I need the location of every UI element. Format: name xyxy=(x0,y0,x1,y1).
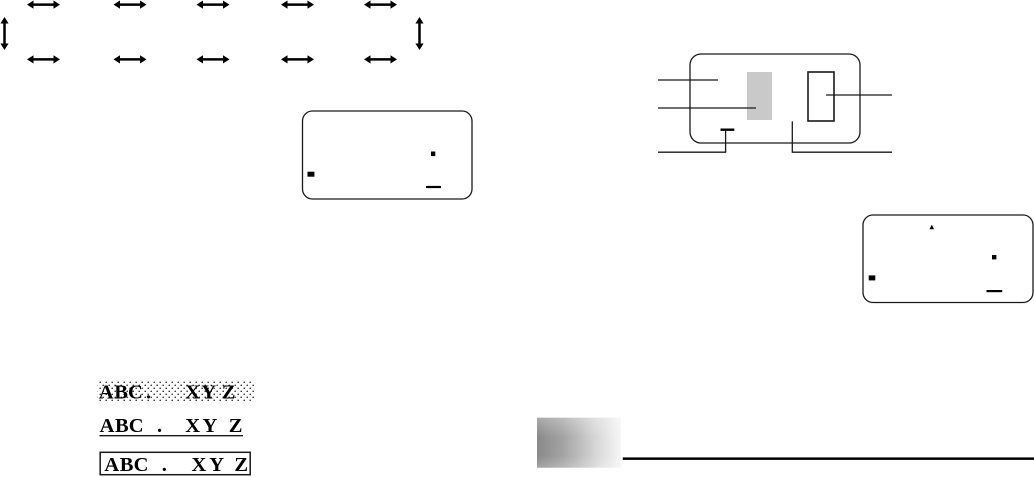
vertical arrow right xyxy=(415,17,423,50)
arrow row2 col2 xyxy=(114,55,147,63)
arrow row2 col3 xyxy=(197,55,230,63)
LCD display 2 outline xyxy=(863,215,1033,303)
arrow row1 col3 xyxy=(197,1,230,9)
svg-text:ABC.: ABC. xyxy=(104,454,167,476)
arrow row1 col1 xyxy=(27,1,60,9)
tape cartridge gray ribbon xyxy=(747,72,772,120)
LCD1 indicator square right xyxy=(431,152,435,157)
boxed text sample frame xyxy=(100,452,250,474)
callout line right xyxy=(826,94,892,96)
LCD1 cursor underscore xyxy=(426,186,441,188)
LCD2 triangle indicator xyxy=(929,225,934,230)
svg-text:XYZ: XYZ xyxy=(192,454,249,476)
callout vertical from tick xyxy=(725,130,727,152)
callout line bottom-left xyxy=(658,151,726,153)
svg-text:ABC.: ABC. xyxy=(100,415,163,437)
svg-text:XYZ: XYZ xyxy=(185,382,235,404)
arrow row2 col4 xyxy=(281,55,314,63)
arrow row2 col5 xyxy=(364,55,397,63)
vertical arrow left xyxy=(0,17,8,50)
callout line upper-left xyxy=(658,79,718,81)
tape cartridge white window xyxy=(808,72,834,121)
arrow row1 col5 xyxy=(364,1,397,9)
arrow row2 col1 xyxy=(27,55,60,63)
tape tick mark xyxy=(721,128,735,130)
LCD2 indicator square right xyxy=(992,255,996,259)
shaded text sample background xyxy=(98,381,255,401)
gradient swatch xyxy=(537,418,621,468)
svg-text:XYZ: XYZ xyxy=(185,415,242,437)
LCD display 1 outline xyxy=(303,111,473,199)
divider rule xyxy=(623,457,1034,460)
underline rule xyxy=(100,435,244,437)
callout line bottom-right xyxy=(792,151,892,153)
LCD2 cursor underscore xyxy=(987,290,1003,292)
callout line mid-left xyxy=(658,107,756,109)
LCD1 indicator square left xyxy=(308,172,315,177)
arrow row1 col4 xyxy=(281,1,314,9)
gradient swatch corner lightening xyxy=(537,418,621,468)
arrow row1 col2 xyxy=(114,1,147,9)
callout vertical right xyxy=(791,121,793,152)
tape cartridge outline xyxy=(690,54,860,143)
LCD2 indicator square left xyxy=(869,275,876,280)
